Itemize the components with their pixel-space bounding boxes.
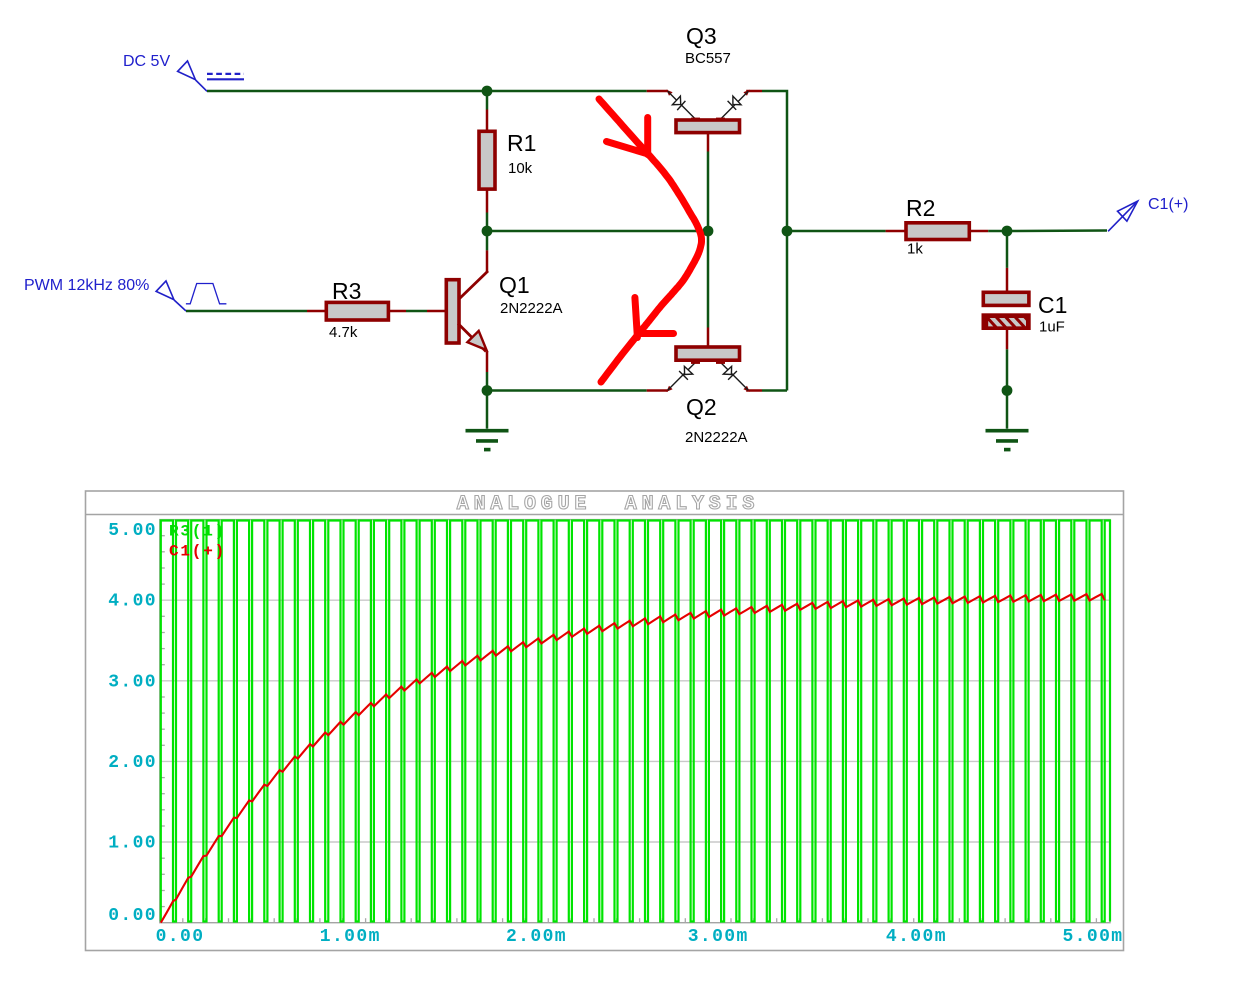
svg-text:Q3: Q3 [686,23,717,49]
svg-text:C1(+): C1(+) [1148,196,1188,213]
resistor R3 [307,302,406,320]
resistor R2 [886,223,989,240]
svg-text:2N2222A: 2N2222A [685,429,748,446]
svg-text:DC 5V: DC 5V [123,53,170,70]
ground (C1) [986,431,1029,450]
annotation red current curve [599,99,702,382]
svg-text:1k: 1k [907,241,923,258]
gridline 1.00 [160,841,1110,843]
wire bottom rail [487,389,647,392]
svg-text:2N2222A: 2N2222A [500,300,563,317]
wire to C1(+) terminal [1007,229,1107,232]
terminal DC 5V arrow [178,61,207,91]
svg-text:ANALOGUE ANALYSIS: ANALOGUE ANALYSIS [457,493,759,516]
annotation arrowhead top [607,118,648,155]
plot border [160,520,1110,923]
svg-text:R2: R2 [906,195,935,221]
svg-text:1uF: 1uF [1039,319,1065,336]
gridline 4.00 [160,599,1110,601]
svg-text:5.00: 5.00 [108,521,157,541]
junction node: R1 bottom / Q1 collector / base drive [482,226,493,237]
ground (Q1 emitter) [466,391,509,450]
svg-text:Q2: Q2 [686,394,717,420]
gridline 2.00 [160,760,1110,762]
svg-text:3.00: 3.00 [108,672,157,692]
wire PWM to R3 [186,310,307,313]
svg-text:PWM 12kHz 80%: PWM 12kHz 80% [24,277,149,294]
y axis minor ticks [160,536,165,907]
trace R3(1) green square wave [161,521,1110,922]
pulse symbol [186,284,227,304]
svg-text:5.00m: 5.00m [1062,927,1123,947]
wire output rail to R2 [787,230,886,233]
resistor R1 [479,91,495,228]
trace C1(+) red RC curve [161,594,1105,923]
svg-text:3.00m: 3.00m [688,927,749,947]
svg-text:2.00m: 2.00m [506,927,567,947]
wire center node row [487,230,708,233]
svg-text:C1(+): C1(+) [169,543,226,561]
svg-text:4.00: 4.00 [108,592,157,612]
x axis minor ticks [183,918,1097,923]
terminal C1(+) arrow [1108,201,1138,231]
transistor Q2 [647,231,762,392]
capacitor C1 [981,231,1040,391]
junction node: R2 / C1 / C1(+) output [1002,226,1013,237]
annotation arrowhead bottom [635,298,674,338]
gridline 3.00 [160,680,1110,682]
svg-text:R3(1): R3(1) [169,523,226,541]
junction node: Q3/Q2 common base [703,226,714,237]
svg-text:0.00: 0.00 [108,906,157,926]
wire C1 to ground [1006,391,1009,429]
svg-text:4.00m: 4.00m [886,927,947,947]
svg-text:1.00: 1.00 [108,834,157,854]
junction node: 5V rail / R1 top [482,86,493,97]
graph frame [86,491,1124,951]
wire bottom rail right [762,389,787,392]
DC symbol [207,74,244,79]
terminal PWM arrow [156,281,186,311]
svg-text:0.00: 0.00 [156,927,205,947]
wire top rail [207,90,647,93]
svg-text:10k: 10k [508,160,533,177]
svg-text:BC557: BC557 [685,50,731,67]
graph title separator [86,514,1123,516]
wire R3 to Q1 base [406,310,427,313]
transistor Q1 [427,231,488,391]
svg-text:2.00: 2.00 [108,753,157,773]
svg-text:Q1: Q1 [499,272,530,298]
svg-text:1.00m: 1.00m [320,927,381,947]
junction node: C1 bottom / ground [1002,385,1013,396]
junction node: Q1 emitter / ground rail [482,385,493,396]
svg-text:R3: R3 [332,278,361,304]
wire R2 to C1 node [988,230,1007,233]
svg-text:R1: R1 [507,130,536,156]
svg-text:C1: C1 [1038,292,1067,318]
junction node: push-pull output rail / R2 [782,226,793,237]
transistor Q3 [647,90,762,231]
svg-text:4.7k: 4.7k [329,324,358,341]
wire top-right corner to output rail [762,91,787,391]
